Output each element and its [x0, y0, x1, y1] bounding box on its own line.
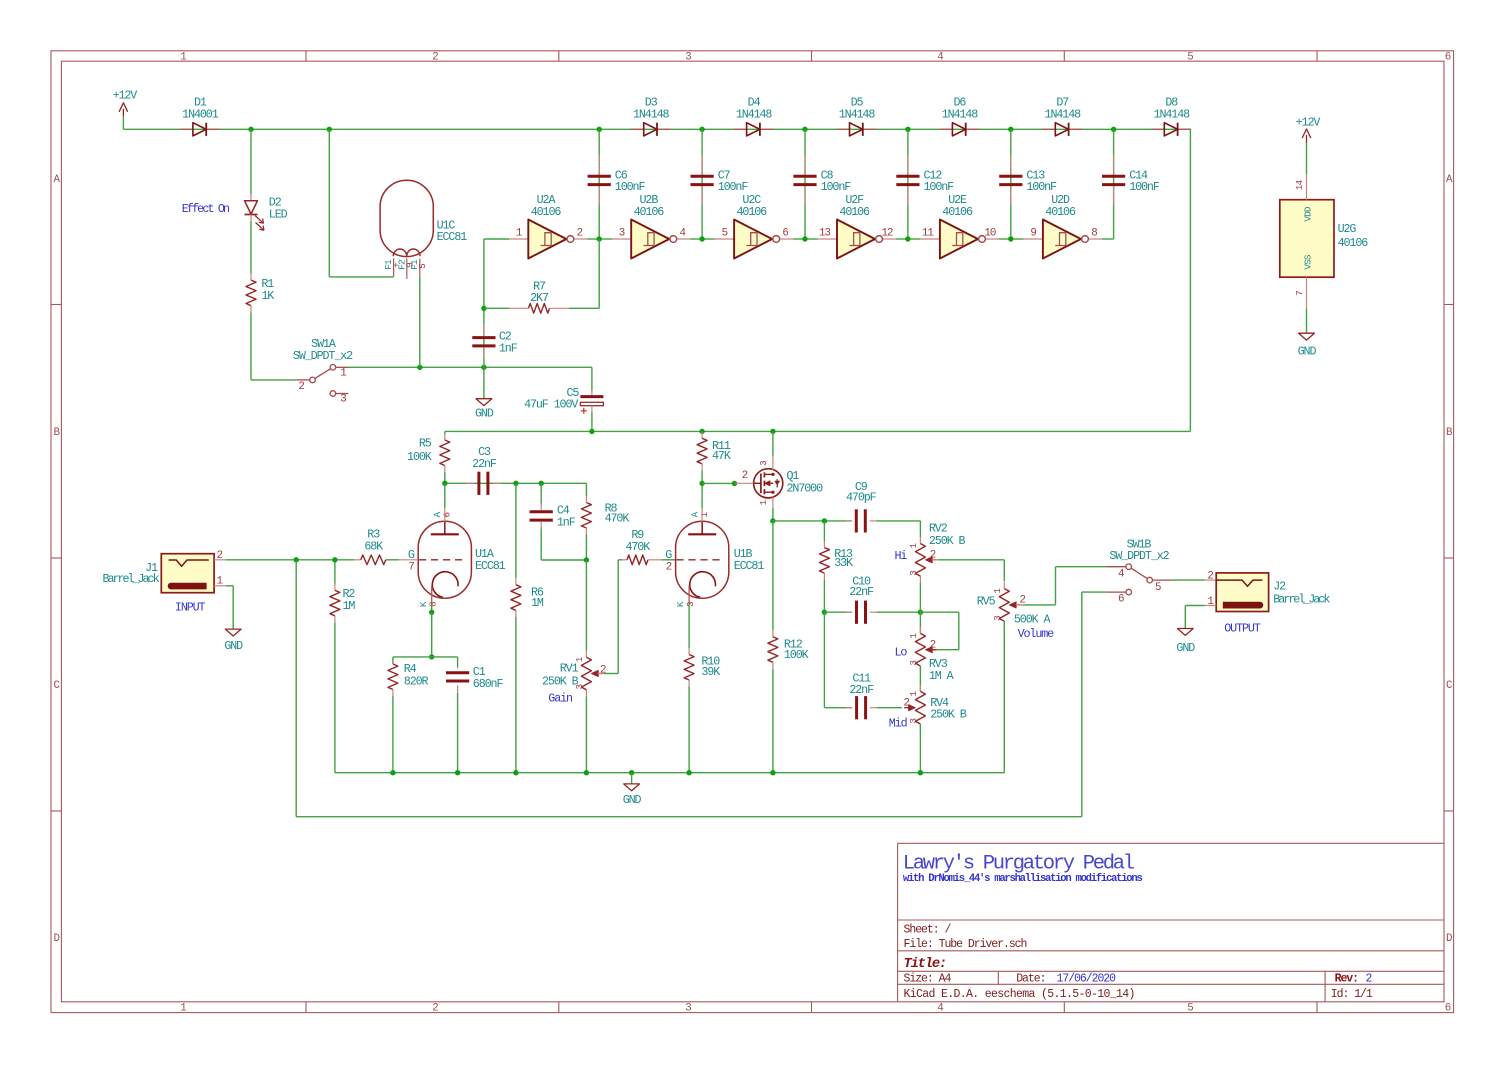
svg-text:GND: GND [1176, 641, 1195, 655]
svg-text:Title:: Title: [904, 956, 946, 972]
svg-text:100nF: 100nF [718, 180, 749, 194]
svg-text:1N4148: 1N4148 [839, 107, 876, 121]
svg-text:1N4001: 1N4001 [182, 107, 219, 121]
svg-text:GND: GND [1298, 345, 1317, 359]
svg-text:1: 1 [180, 52, 186, 64]
svg-text:22nF: 22nF [472, 457, 497, 471]
svg-text:8: 8 [1091, 228, 1097, 240]
svg-text:22nF: 22nF [849, 683, 874, 697]
svg-text:Lo: Lo [894, 645, 907, 659]
svg-text:13: 13 [819, 228, 830, 240]
svg-text:14: 14 [1294, 180, 1305, 191]
svg-text:4: 4 [680, 228, 686, 240]
svg-text:40106: 40106 [531, 205, 562, 219]
svg-text:VDD: VDD [1302, 206, 1313, 221]
svg-text:1N4148: 1N4148 [1045, 107, 1082, 121]
svg-text:U2G: U2G [1338, 222, 1357, 236]
svg-text:6: 6 [1445, 52, 1451, 64]
svg-text:6: 6 [442, 513, 453, 518]
svg-text:GND: GND [224, 639, 243, 653]
svg-text:GND: GND [475, 407, 494, 421]
svg-text:2N7000: 2N7000 [787, 481, 824, 495]
svg-text:40106: 40106 [839, 205, 870, 219]
svg-text:1: 1 [908, 543, 919, 549]
svg-text:C: C [53, 680, 60, 692]
svg-text:3: 3 [619, 228, 625, 240]
svg-text:2: 2 [930, 640, 936, 652]
svg-text:250K B: 250K B [542, 674, 579, 688]
svg-text:4: 4 [937, 52, 943, 64]
svg-text:B: B [1446, 427, 1453, 439]
svg-text:+12V: +12V [113, 88, 138, 102]
svg-text:3: 3 [908, 571, 919, 576]
svg-text:1M A: 1M A [929, 669, 955, 683]
svg-text:250K B: 250K B [930, 708, 967, 722]
svg-text:6: 6 [1118, 594, 1124, 606]
svg-text:3: 3 [340, 394, 346, 406]
svg-text:40106: 40106 [737, 205, 768, 219]
svg-text:VSS: VSS [1302, 254, 1313, 269]
svg-text:Barrel_Jack: Barrel_Jack [102, 572, 159, 586]
svg-text:2: 2 [432, 1002, 438, 1014]
svg-text:1: 1 [758, 499, 769, 505]
svg-text:3: 3 [992, 616, 1003, 621]
svg-text:39K: 39K [701, 665, 720, 679]
svg-text:ECC81: ECC81 [734, 559, 765, 573]
svg-text:5: 5 [1187, 1002, 1193, 1014]
svg-text:250K B: 250K B [929, 534, 966, 548]
svg-text:A: A [1446, 174, 1453, 186]
svg-text:3: 3 [758, 461, 769, 466]
svg-text:5: 5 [417, 264, 428, 269]
svg-text:1: 1 [908, 690, 919, 696]
svg-text:+12V: +12V [1296, 115, 1321, 129]
svg-text:3: 3 [685, 52, 691, 64]
svg-text:1N4148: 1N4148 [633, 107, 670, 121]
svg-text:RV5: RV5 [977, 594, 996, 608]
svg-text:100K: 100K [784, 648, 809, 662]
svg-text:2: 2 [432, 52, 438, 64]
svg-text:5: 5 [1155, 582, 1161, 594]
svg-text:with DrNomis_44's marshallisat: with DrNomis_44's marshallisation modifi… [903, 873, 1143, 885]
svg-text:INPUT: INPUT [175, 600, 206, 614]
svg-text:40106: 40106 [942, 205, 973, 219]
svg-text:470pF: 470pF [846, 491, 877, 505]
svg-text:17/06/2020: 17/06/2020 [1057, 972, 1117, 985]
svg-text:1nF: 1nF [557, 515, 576, 529]
svg-text:1N4148: 1N4148 [1154, 107, 1191, 121]
svg-text:LED: LED [269, 207, 288, 221]
svg-text:10: 10 [984, 228, 995, 240]
svg-text:12: 12 [882, 228, 893, 240]
svg-text:4: 4 [1118, 569, 1124, 581]
svg-text:Date:: Date: [1016, 972, 1045, 985]
svg-text:40106: 40106 [1045, 205, 1076, 219]
svg-text:Barrel_Jack: Barrel_Jack [1273, 592, 1330, 606]
svg-text:2: 2 [600, 665, 606, 677]
svg-text:Rev:: Rev: [1335, 972, 1358, 985]
svg-text:1M: 1M [531, 596, 544, 610]
svg-text:1: 1 [699, 512, 710, 518]
svg-text:820R: 820R [404, 674, 429, 688]
svg-text:A: A [53, 174, 60, 186]
svg-text:2: 2 [1207, 570, 1213, 582]
svg-text:File: Tube Driver.sch: File: Tube Driver.sch [904, 938, 1027, 951]
svg-text:Volume: Volume [1018, 627, 1055, 641]
svg-text:9: 9 [1030, 228, 1036, 240]
svg-text:1: 1 [992, 588, 1003, 594]
svg-text:40106: 40106 [1338, 236, 1369, 250]
svg-text:Effect On: Effect On [182, 202, 229, 216]
svg-text:1N4148: 1N4148 [942, 107, 979, 121]
svg-text:3: 3 [685, 1002, 691, 1014]
svg-text:1nF: 1nF [499, 341, 518, 355]
svg-text:Size: A4: Size: A4 [904, 972, 952, 985]
svg-text:500K A: 500K A [1014, 612, 1052, 626]
svg-text:100nF: 100nF [615, 180, 646, 194]
svg-text:GND: GND [623, 793, 642, 807]
svg-text:2: 2 [904, 697, 910, 709]
svg-text:Sheet: /: Sheet: / [904, 924, 952, 937]
svg-text:2: 2 [742, 470, 748, 482]
svg-text:7: 7 [1294, 291, 1305, 296]
svg-text:1: 1 [908, 632, 919, 638]
svg-text:100K: 100K [407, 450, 432, 464]
svg-text:3: 3 [908, 719, 919, 724]
svg-text:47uF 100V: 47uF 100V [524, 397, 578, 411]
svg-text:R5: R5 [419, 437, 432, 451]
svg-text:1: 1 [516, 228, 522, 240]
svg-text:7: 7 [408, 562, 414, 574]
svg-text:1: 1 [340, 368, 346, 380]
svg-text:KiCad E.D.A. eeschema (5.1.5-: KiCad E.D.A. eeschema (5.1.5-0-10_14) [904, 988, 1135, 1001]
svg-text:100nF: 100nF [924, 180, 955, 194]
svg-text:1K: 1K [261, 289, 274, 303]
svg-text:6: 6 [1445, 1002, 1451, 1014]
svg-text:Gain: Gain [548, 691, 572, 705]
svg-text:8: 8 [427, 602, 438, 607]
svg-text:22nF: 22nF [849, 585, 874, 599]
svg-text:B: B [53, 427, 60, 439]
svg-text:3: 3 [908, 661, 919, 666]
svg-text:SW_DPDT_x2: SW_DPDT_x2 [293, 349, 353, 363]
svg-text:5: 5 [722, 228, 728, 240]
svg-text:2: 2 [298, 381, 304, 393]
svg-text:100nF: 100nF [821, 180, 852, 194]
svg-text:47K: 47K [712, 449, 731, 463]
svg-text:2: 2 [666, 562, 672, 574]
svg-text:470K: 470K [605, 512, 630, 526]
svg-text:3: 3 [685, 602, 696, 607]
svg-text:68K: 68K [364, 540, 383, 554]
svg-text:100nF: 100nF [1026, 180, 1057, 194]
svg-text:470K: 470K [625, 540, 650, 554]
svg-text:ECC81: ECC81 [475, 559, 506, 573]
svg-text:1N4148: 1N4148 [736, 107, 773, 121]
svg-text:5: 5 [1187, 52, 1193, 64]
svg-text:1M: 1M [343, 599, 356, 613]
svg-text:2: 2 [1366, 972, 1373, 985]
svg-text:4: 4 [937, 1002, 943, 1014]
svg-text:D: D [53, 933, 59, 945]
svg-text:OUTPUT: OUTPUT [1224, 622, 1261, 636]
svg-text:680nF: 680nF [473, 677, 504, 691]
svg-text:Id: 1/1: Id: 1/1 [1331, 988, 1373, 1001]
svg-text:Mid: Mid [889, 717, 907, 731]
svg-text:D: D [1446, 933, 1452, 945]
svg-text:Hi: Hi [894, 549, 907, 563]
svg-text:C: C [1446, 680, 1453, 692]
svg-text:40106: 40106 [634, 205, 665, 219]
svg-text:2K7: 2K7 [530, 291, 549, 305]
svg-text:SW_DPDT_x2: SW_DPDT_x2 [1109, 549, 1169, 563]
svg-text:11: 11 [922, 228, 933, 240]
svg-text:1: 1 [180, 1002, 186, 1014]
svg-text:33K: 33K [834, 556, 853, 570]
svg-text:ECC81: ECC81 [437, 230, 468, 244]
svg-text:100nF: 100nF [1129, 180, 1160, 194]
svg-text:2: 2 [577, 228, 583, 240]
svg-text:6: 6 [782, 228, 788, 240]
